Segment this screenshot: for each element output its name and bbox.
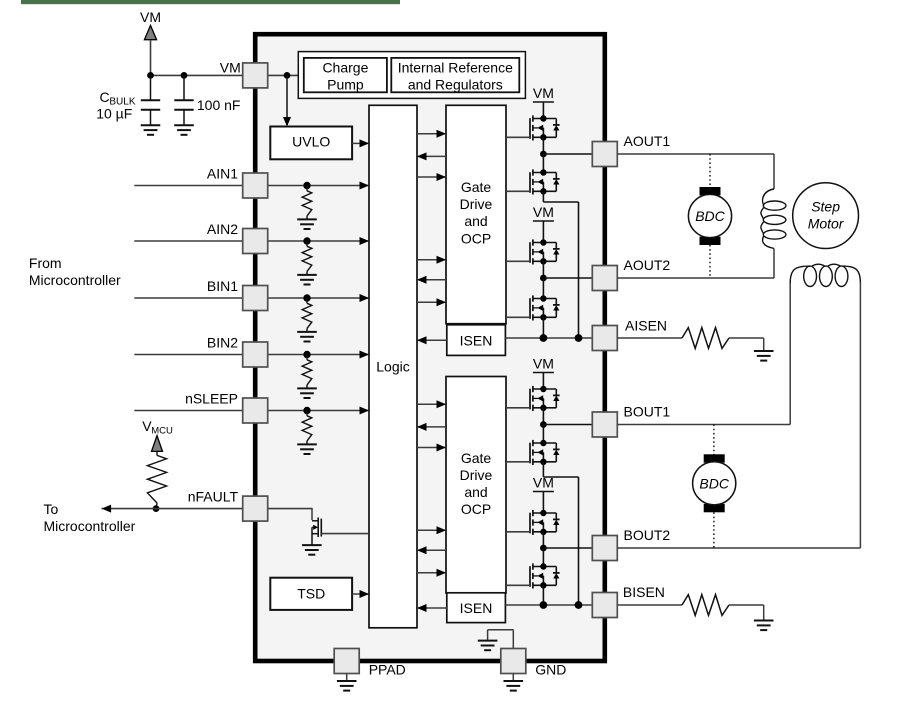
block Charge Pump (304, 58, 387, 93)
svg-text:BISEN: BISEN (623, 584, 665, 600)
pin AIN2 (243, 229, 268, 254)
value label 10 uF (96, 105, 132, 121)
pin BIN2 (243, 342, 268, 367)
power supply arrow VM (144, 25, 156, 75)
svg-text:AISEN: AISEN (625, 318, 667, 334)
wire R8 to ground (729, 605, 764, 621)
wire Logic to Gate Drive at y572.8 (417, 569, 446, 577)
svg-text:Logic: Logic (376, 359, 409, 375)
net label VM (bridge B high2) (533, 475, 554, 492)
net label VM (supply) (140, 9, 161, 25)
label AOUT1 (624, 133, 671, 149)
dotted link BDC2 bottom (713, 512, 715, 548)
wire Logic to Gate Drive at y404.3 (417, 400, 446, 408)
pin PPAD (334, 649, 359, 674)
svg-text:and: and (464, 484, 487, 500)
label VM pin (220, 59, 241, 75)
label AISEN (625, 318, 667, 334)
arrowhead into UVLO (283, 117, 291, 127)
wire Q3 source to AOUT2 node (542, 261, 544, 278)
svg-text:VM: VM (533, 204, 554, 220)
junction dot BIN2 pulldown (303, 351, 310, 358)
svg-text:and Regulators: and Regulators (408, 77, 503, 93)
resistor R6 nFAULT pullup (147, 455, 166, 503)
ground (internal GND) (478, 641, 498, 651)
svg-text:Microcontroller: Microcontroller (29, 272, 121, 288)
wire VM to Q5 drain (542, 373, 544, 390)
block Logic (369, 105, 417, 628)
junction dot BISEN/Q6 (575, 601, 583, 609)
wire ISEN ground to GND pin (488, 630, 514, 649)
label BIN1 (207, 278, 238, 294)
svg-text:ISEN: ISEN (460, 333, 493, 349)
ground (BISEN) (754, 621, 774, 631)
pin VM (243, 63, 268, 88)
wire Gate Drive to Logic at y156.4 (417, 152, 446, 160)
label BOUT1 (624, 404, 671, 420)
svg-text:AOUT2: AOUT2 (624, 257, 671, 273)
ground (pulldown AIN1) (297, 219, 317, 229)
wire Q5 source to BOUT1 node (542, 408, 544, 425)
wire Q2 source to AISEN net (543, 191, 578, 338)
label C_BULK (100, 89, 136, 107)
ground (PPAD) (337, 674, 357, 691)
wire AIN2 to Logic (268, 237, 369, 245)
pin GND (501, 649, 526, 674)
capacitor C1 CBULK (141, 75, 160, 125)
block Internal Reference and Regulators (391, 58, 519, 93)
resistor R7 AISEN sense (682, 328, 729, 349)
svg-text:Internal Reference: Internal Reference (398, 59, 513, 75)
svg-text:AIN1: AIN1 (207, 165, 238, 181)
label BOUT2 (624, 527, 671, 543)
wire Gate Drive to Logic at y550.2 (417, 546, 446, 554)
block container (charge pump / reference) (298, 52, 525, 99)
wire Q1 source to AOUT1 node (542, 137, 544, 154)
net label VM (bridge A high2) (533, 204, 554, 221)
svg-text:VM: VM (533, 356, 554, 372)
svg-text:OCP: OCP (461, 231, 491, 247)
ground (pulldown BIN2) (297, 388, 317, 398)
wire ISEN A block to AISEN pin (505, 337, 592, 339)
label BISEN (623, 584, 665, 600)
pin BOUT1 (592, 412, 617, 437)
resistor pulldown BIN1 (302, 298, 312, 332)
ground (pulldown AIN2) (297, 275, 317, 285)
block TSD (270, 578, 352, 610)
junction dot BIN1 pulldown (303, 294, 310, 301)
wire Logic to Gate Drive at y447.5 (417, 444, 446, 452)
ground (100nF) (174, 125, 194, 135)
junction dot AISEN/Q2 (575, 334, 583, 342)
wire AOUT1 node to Q2 drain (542, 154, 544, 173)
transistor Q7 (BOUT2 high-side) (530, 510, 560, 535)
pin BIN1 (243, 286, 268, 311)
dotted link BDC2 top (713, 425, 715, 456)
wire Logic to Gate Drive at y530.3 (417, 526, 446, 534)
pin BOUT2 (592, 536, 617, 561)
ground (GND pin) (504, 674, 524, 691)
inductor stepper winding B (790, 264, 860, 286)
wire VM to Q3 drain (542, 221, 544, 243)
svg-text:BDC: BDC (695, 208, 725, 224)
node BOUT1 junction (540, 421, 592, 428)
svg-text:AIN2: AIN2 (207, 221, 238, 237)
wire Q2 gate (506, 190, 530, 192)
pin AOUT1 (592, 142, 617, 167)
ground (Q9 source) (302, 545, 322, 555)
transistor Q1 (AOUT1 high-side) (530, 115, 560, 140)
net label VM (bridge A high1) (533, 85, 554, 102)
svg-text:BOUT2: BOUT2 (624, 527, 671, 543)
resistor pulldown AIN1 (302, 186, 312, 220)
wire VM to Q7 drain (542, 492, 544, 514)
junction dot AISEN/Q4 (540, 334, 548, 342)
wire VM supply to VM pin (151, 74, 244, 76)
wire BIN1 input (134, 297, 243, 299)
pin nFAULT (243, 496, 268, 521)
svg-text:ISEN: ISEN (460, 600, 493, 616)
junction dot BISEN/Q8 (540, 601, 548, 609)
pin BISEN (592, 593, 617, 618)
wire VM to Q1 drain (542, 102, 544, 119)
device outline (motor driver IC) (255, 34, 605, 661)
svg-text:Motor: Motor (808, 216, 845, 232)
junction dot nSLEEP pulldown (303, 407, 310, 414)
svg-text:TSD: TSD (297, 585, 325, 601)
label BIN2 (207, 334, 238, 350)
label PPAD (369, 662, 406, 678)
wire BOUT2 node to Q8 drain (542, 548, 544, 567)
svg-text:BDC: BDC (699, 475, 729, 491)
wire AISEN to R7 (617, 337, 682, 339)
block Gate Drive and OCP (bridge A) (446, 105, 506, 323)
svg-text:Drive: Drive (460, 196, 493, 212)
wire winding A to AOUT2 (617, 248, 774, 278)
wire Q6 gate (506, 461, 530, 463)
svg-text:Charge: Charge (322, 59, 368, 75)
ground (CBULK) (141, 125, 161, 135)
svg-text:nSLEEP: nSLEEP (185, 390, 238, 406)
svg-text:Microcontroller: Microcontroller (44, 518, 136, 534)
wire AIN1 input (134, 185, 243, 187)
wire Q3 gate (506, 260, 530, 262)
resistor R8 BISEN sense (682, 595, 729, 616)
svg-text:To: To (44, 501, 59, 517)
label nSLEEP (185, 390, 238, 406)
net label V_MCU (142, 418, 173, 436)
node AOUT1 junction (540, 151, 592, 158)
transistor Q5 (BOUT1 high-side) (530, 386, 560, 411)
pin nSLEEP (243, 398, 268, 423)
node AOUT2 junction (540, 275, 592, 282)
transistor Q3 (AOUT2 high-side) (530, 239, 560, 264)
svg-text:Pump: Pump (327, 77, 364, 93)
wire Q4 source to AISEN net (542, 317, 544, 338)
arrowhead to microcontroller (102, 505, 112, 513)
label GND (535, 662, 566, 678)
svg-text:MCU: MCU (151, 425, 173, 436)
wire nSLEEP to Logic (268, 407, 369, 415)
block ISEN (bridge A) (447, 325, 506, 356)
block ISEN (bridge B) (447, 593, 506, 623)
dotted link BDC1 top (709, 154, 711, 187)
label nFAULT (188, 488, 239, 504)
svg-text:Step: Step (811, 199, 840, 215)
motor M2 BDC (693, 454, 736, 512)
wire ISEN B block to BISEN pin (505, 604, 592, 606)
svg-text:OCP: OCP (461, 501, 491, 517)
svg-text:VM: VM (533, 85, 554, 101)
wire AOUT1 to winding A (617, 154, 774, 189)
text From Microcontroller (29, 255, 121, 288)
dotted link BDC1 bottom (709, 245, 711, 278)
motor M1 BDC (688, 187, 731, 245)
svg-text:100 nF: 100 nF (197, 97, 241, 113)
junction dot VM internal (284, 72, 291, 79)
wire Q8 gate (506, 584, 530, 586)
svg-text:VM: VM (140, 9, 161, 25)
wire Q5 gate (506, 407, 530, 409)
block Gate Drive and OCP (bridge B) (446, 377, 506, 594)
svg-text:Gate: Gate (461, 450, 492, 466)
wire nFAULT pin to Q9 (268, 508, 312, 520)
ground (AISEN) (754, 351, 774, 361)
transistor Q8 (BOUT2 low-side) (530, 563, 560, 588)
wire Logic to Gate Drive at y177 (417, 173, 446, 181)
wire Gate Drive to Logic at y426.9 (417, 423, 446, 431)
junction dot VM/100nF (181, 72, 188, 79)
resistor pulldown nSLEEP (302, 411, 312, 445)
resistor pulldown AIN2 (302, 241, 312, 275)
svg-text:10 µF: 10 µF (96, 105, 132, 121)
svg-text:nFAULT: nFAULT (188, 488, 239, 504)
svg-text:BOUT1: BOUT1 (624, 404, 671, 420)
ground (pulldown nSLEEP) (297, 444, 317, 454)
wire Q4 gate (506, 316, 530, 318)
motor Step Motor (793, 183, 859, 249)
wire nSLEEP input (134, 410, 243, 412)
label AIN2 (207, 221, 238, 237)
svg-text:Gate: Gate (461, 179, 492, 195)
power supply arrow V_MCU (152, 436, 163, 456)
text To Microcontroller (44, 501, 136, 534)
junction dot nFAULT/R6 (153, 503, 160, 512)
capacitor C2 100nF (174, 75, 193, 125)
wire Logic to Gate Drive at y133.8 (417, 130, 446, 138)
pin AIN1 (243, 173, 268, 198)
wire Logic to Gate Drive at y259.8 (417, 256, 446, 264)
wire BIN1 to Logic (268, 294, 369, 302)
wire Q7 source to BOUT2 node (542, 532, 544, 548)
pin AOUT2 (592, 266, 617, 291)
wire BOUT1 to winding B (617, 282, 790, 425)
transistor Q6 (BOUT1 low-side) (530, 440, 560, 465)
label AOUT2 (624, 257, 671, 273)
wire VM pin to charge pump (268, 74, 299, 76)
wire Logic to Gate Drive at y302.3 (417, 298, 446, 306)
ground (pulldown BIN1) (297, 332, 317, 342)
wire BOUT1 node to Q6 drain (542, 425, 544, 444)
wire BISEN to R8 (617, 604, 682, 606)
value label 100 nF (197, 97, 241, 113)
wire Gate Drive to Logic at y279.7 (417, 276, 446, 284)
wire R7 to ground (729, 338, 764, 351)
junction dot VM/CBULK (147, 72, 154, 79)
transistor Q9 nFAULT open-drain (312, 518, 321, 546)
wire VM to UVLO (286, 75, 288, 125)
transistor Q2 (AOUT1 low-side) (530, 169, 560, 194)
svg-text:From: From (29, 255, 62, 271)
junction dot AIN1 pulldown (303, 182, 310, 189)
svg-text:GND: GND (535, 662, 566, 678)
wire Q8 source to BISEN net (542, 585, 544, 605)
wire ISEN A to Logic (417, 336, 447, 344)
wire nFAULT to microcontroller (102, 508, 243, 510)
svg-text:PPAD: PPAD (369, 662, 406, 678)
inductor stepper winding A (761, 189, 786, 248)
node BOUT2 junction (540, 545, 592, 552)
svg-text:and: and (464, 213, 487, 229)
pin AISEN (592, 326, 617, 351)
svg-text:Drive: Drive (460, 467, 493, 483)
svg-text:C: C (100, 89, 110, 105)
junction dot AIN2 pulldown (303, 237, 310, 244)
wire AOUT2 node to Q4 drain (542, 278, 544, 299)
wire TSD to Logic (352, 590, 369, 598)
wire AIN1 to Logic (268, 182, 369, 190)
resistor pulldown BIN2 (302, 355, 312, 389)
svg-text:UVLO: UVLO (292, 134, 330, 150)
net label VM (bridge B high1) (533, 356, 554, 373)
wire BIN2 to Logic (268, 351, 369, 359)
svg-text:VM: VM (533, 475, 554, 491)
wire Q6 source to BISEN net (543, 462, 578, 605)
wire ISEN B to Logic (417, 604, 447, 612)
svg-text:AOUT1: AOUT1 (624, 133, 671, 149)
block UVLO (270, 127, 352, 160)
wire AIN2 input (134, 240, 243, 242)
wire BIN2 input (134, 354, 243, 356)
wire Q1 gate (506, 136, 530, 138)
svg-text:BIN1: BIN1 (207, 278, 238, 294)
wire Q7 gate (506, 531, 530, 533)
label AIN1 (207, 165, 238, 181)
wire UVLO to Logic (352, 139, 369, 147)
svg-text:BIN2: BIN2 (207, 334, 238, 350)
transistor Q4 (AOUT2 low-side) (530, 295, 560, 320)
wire winding B to BOUT2 (617, 282, 860, 548)
wire Q9 gate to Logic (321, 533, 369, 535)
svg-text:VM: VM (220, 59, 241, 75)
